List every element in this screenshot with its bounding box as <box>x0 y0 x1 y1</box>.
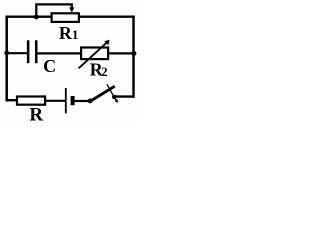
wire: right border <box>132 16 135 98</box>
wire: bottom-left corner to resistor R <box>6 99 18 101</box>
rheostat R2 arrow (diagonal) <box>79 42 108 68</box>
battery positive plate (long thin) <box>65 88 67 113</box>
wire: switch to bottom-right corner <box>116 95 135 97</box>
node: capacitor branch junction on left border <box>4 51 9 56</box>
switch left terminal (node) <box>88 99 93 104</box>
switch right terminal (node) <box>112 95 116 99</box>
wire: R to battery <box>45 100 66 102</box>
wire: slider tap riser and overhead run <box>36 4 72 17</box>
arrowhead: R2 arrow tip <box>104 40 109 46</box>
capacitor C left plate <box>27 40 30 63</box>
wire: left border to capacitor <box>7 52 28 54</box>
switch blade (open) <box>89 86 115 102</box>
wire: top side, R1 to top-right corner <box>79 16 135 18</box>
node: R2 branch junction on right border <box>131 51 136 56</box>
wire: battery to switch <box>75 100 90 102</box>
switch closing-direction arrow line <box>107 84 116 100</box>
battery negative plate (short thick) <box>71 96 75 105</box>
capacitor C right plate <box>35 40 38 63</box>
wire: capacitor to rheostat R2 <box>37 52 81 54</box>
wire: R2 to right border <box>109 52 135 54</box>
node: junction of slider tap on top wire <box>34 14 39 19</box>
arrowhead: switch closing arrow <box>115 99 118 103</box>
rheostat R2 (box) <box>81 48 108 60</box>
resistor R1 (box) <box>52 13 79 22</box>
svg-text:C: C <box>43 56 56 76</box>
svg-text:R: R <box>29 104 43 123</box>
wire: left border <box>5 16 8 102</box>
arrowhead: slider arrow onto R1 <box>69 7 74 12</box>
wire: top side, left corner to R1 <box>6 16 53 18</box>
resistor R (box) <box>17 97 45 105</box>
